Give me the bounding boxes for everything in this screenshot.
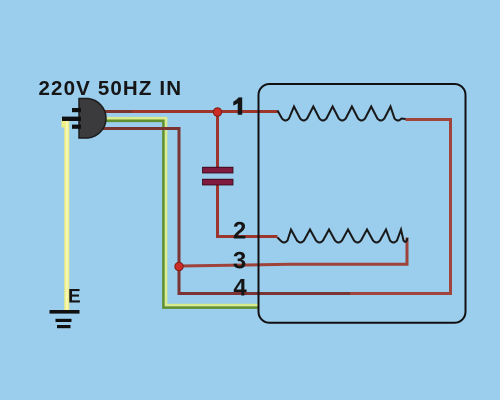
ground symbol bar 2 xyxy=(56,319,72,322)
node junction dot A xyxy=(175,262,183,270)
capacitor C1 xyxy=(203,167,234,185)
svg-text:220V 50HZ IN: 220V 50HZ IN xyxy=(39,77,183,100)
plug P1 prong bottom xyxy=(72,125,81,129)
wire terminal 4 to winding M1 right end (brick red) xyxy=(350,120,451,294)
plug P1 body xyxy=(79,99,106,139)
wire C1 to terminal 2 (red) xyxy=(216,183,278,237)
wire dark red plug to node A and terminal 4 run xyxy=(100,129,352,294)
svg-text:2: 2 xyxy=(233,218,246,245)
motor housing box xyxy=(259,84,466,323)
winding M2 (aux coil) xyxy=(278,230,408,243)
plug P1 prong top xyxy=(72,108,81,112)
wire capacitor branch (red vertical from node 1 to C1) xyxy=(216,112,219,168)
wire N neutral (yellow-green) plug to box, green half xyxy=(100,121,259,308)
node junction dot 1 xyxy=(213,108,221,116)
wire earth (yellow) plug to ground xyxy=(62,119,65,128)
terminal label 1 xyxy=(233,97,242,114)
ground symbol bar 3 xyxy=(57,325,71,328)
ground symbol bar 1 xyxy=(50,310,80,314)
winding M1 (main coil) xyxy=(278,107,406,121)
svg-text:4: 4 xyxy=(233,275,247,302)
wire L live (red) plug to terminal 1 xyxy=(100,110,278,113)
svg-text:E: E xyxy=(68,287,81,308)
wire terminal 3 to winding M2 right end (brick red) xyxy=(180,238,407,267)
wire N neutral yellow half xyxy=(100,118,259,305)
svg-text:3: 3 xyxy=(233,248,246,275)
plug P1 prong middle (earth) xyxy=(62,117,81,121)
